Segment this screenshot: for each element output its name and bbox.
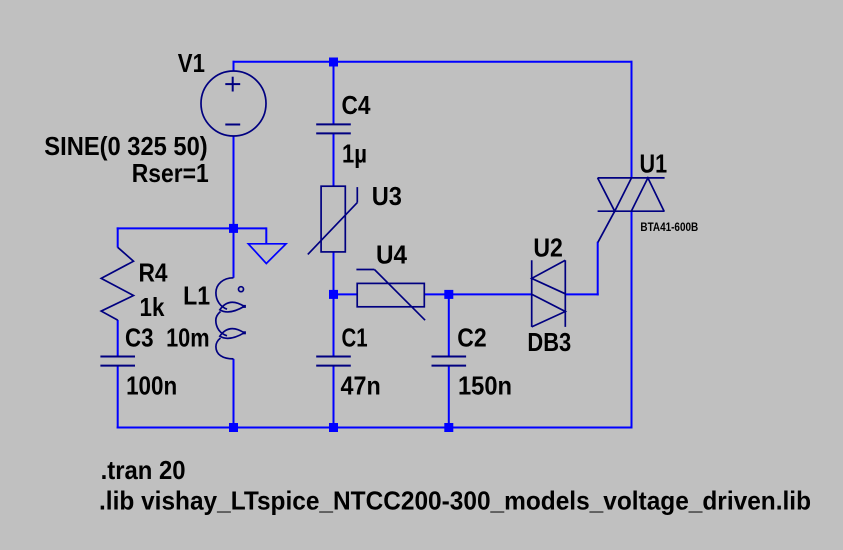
wire U4 right to diac (424, 293, 532, 295)
wire C1 bottom to rail (333, 366, 335, 428)
svg-text:100n: 100n (126, 371, 177, 401)
resistor R4 (101, 247, 133, 320)
wire node to U4 left (334, 293, 358, 295)
node junction U4/C2 (444, 290, 453, 299)
wire ground stub vertical (265, 227, 267, 243)
wire triac top (631, 61, 633, 179)
wire L1 bottom to rail (233, 359, 235, 428)
wire triac bottom to rail (631, 211, 633, 429)
node junction V1 bottom (229, 224, 238, 233)
triac U1 (598, 178, 665, 242)
wire C3 to bottom rail (117, 366, 119, 429)
node junction top C4 (329, 58, 338, 67)
wire left branch upper vertical (117, 227, 119, 247)
svg-text:47n: 47n (341, 371, 381, 401)
svg-text:U1: U1 (640, 148, 668, 178)
wire V1 top stub (233, 61, 235, 72)
svg-text:1µ: 1µ (342, 139, 367, 169)
voltage source V1 (201, 71, 266, 136)
node junction U3/C1/U4 (329, 290, 338, 299)
wire node to L1 top (233, 228, 235, 277)
ground (248, 244, 286, 264)
wire ground stub horizontal (234, 227, 267, 229)
wire V1 bottom to node (233, 136, 235, 230)
wire C2 top stub (448, 294, 450, 356)
svg-text:L1: L1 (183, 281, 210, 311)
diac U2 (532, 260, 566, 327)
node junction rail C2 (444, 423, 453, 432)
node junction rail C1 (329, 423, 338, 432)
svg-text:U2: U2 (533, 233, 563, 263)
svg-text:10m: 10m (166, 323, 210, 353)
capacitor C3 (100, 357, 135, 366)
wire R4 to C3 (117, 320, 119, 356)
wire U3 bottom to C1 top (333, 252, 335, 357)
svg-text:U4: U4 (376, 239, 408, 269)
svg-text:Rser=1: Rser=1 (132, 158, 209, 188)
svg-text:C4: C4 (342, 90, 371, 120)
svg-text:.tran 20: .tran 20 (101, 455, 186, 485)
wire gate vertical (597, 242, 599, 296)
capacitor C1 (316, 357, 351, 366)
capacitor C2 (432, 357, 467, 366)
svg-text:150n: 150n (458, 371, 512, 401)
inductor L1 (216, 278, 246, 359)
wire C4 bottom to U3 top (333, 133, 335, 186)
node junction rail L1 (229, 423, 238, 432)
wire C2 bottom to rail (448, 366, 450, 428)
svg-text:DB3: DB3 (527, 327, 571, 357)
capacitor C4 (316, 124, 351, 133)
svg-text:BTA41-600B: BTA41-600B (640, 222, 698, 234)
svg-text:1k: 1k (140, 292, 165, 322)
thermistor U4 (356, 270, 425, 321)
svg-text:C1: C1 (342, 323, 368, 353)
svg-text:.lib vishay_LTspice_NTCC200-30: .lib vishay_LTspice_NTCC200-300_models_v… (99, 485, 811, 515)
svg-text:C3: C3 (125, 323, 154, 353)
wire C4 top stub (333, 62, 335, 124)
wire bottom rail (117, 427, 633, 429)
svg-text:C2: C2 (457, 323, 486, 353)
thermistor U3 (308, 186, 358, 254)
svg-text:R4: R4 (139, 258, 169, 288)
wire diac right to gate corner (565, 293, 598, 295)
wire top rail (233, 61, 633, 63)
svg-text:U3: U3 (372, 181, 402, 211)
wire left branch top horizontal (117, 227, 234, 229)
svg-text:SINE(0 325 50): SINE(0 325 50) (44, 131, 207, 161)
svg-text:V1: V1 (178, 48, 205, 78)
